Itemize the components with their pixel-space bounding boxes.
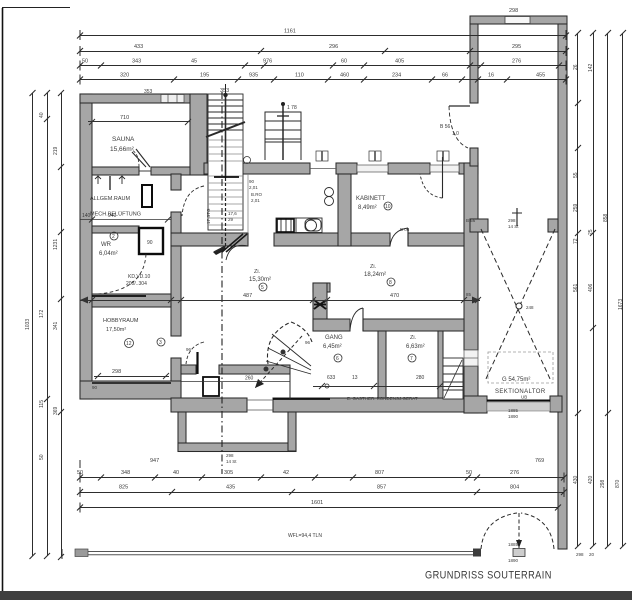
- bottom title bar: [0, 591, 632, 600]
- garage cross bracing X: [481, 208, 555, 383]
- wall interior long (y233): [171, 233, 464, 246]
- svg-text:7: 7: [410, 356, 413, 362]
- interior dim line mid y300: [80, 297, 481, 304]
- svg-text:405: 405: [395, 59, 404, 65]
- interior dim line hobby y376: [94, 373, 169, 379]
- svg-text:470: 470: [390, 293, 399, 299]
- wall central column x313: [313, 283, 330, 331]
- svg-text:B 56: B 56: [466, 218, 476, 223]
- svg-text:298: 298: [576, 552, 584, 557]
- window lintel label boxes above corridor wall: [316, 151, 449, 161]
- svg-text:353: 353: [220, 88, 229, 94]
- svg-text:295: 295: [512, 44, 521, 50]
- svg-text:1890: 1890: [508, 558, 519, 563]
- svg-text:55: 55: [573, 172, 579, 178]
- ALLG room black duct: [142, 185, 152, 207]
- svg-text:Zi.: Zi.: [410, 335, 417, 341]
- svg-text:343: 343: [132, 59, 141, 65]
- wall house bottom: [171, 398, 480, 412]
- svg-text:13: 13: [352, 375, 358, 381]
- dimension chain top line 4: [77, 75, 569, 85]
- svg-text:HOBBYRAUM: HOBBYRAUM: [103, 318, 139, 324]
- svg-text:298: 298: [508, 218, 516, 223]
- svg-text:16: 16: [488, 73, 494, 79]
- door gang: [350, 308, 363, 331]
- svg-text:1 78: 1 78: [287, 105, 297, 111]
- svg-text:85: 85: [466, 292, 472, 297]
- svg-text:870: 870: [615, 479, 621, 488]
- svg-text:280: 280: [416, 375, 425, 381]
- svg-text:8,49m²: 8,49m²: [358, 205, 377, 211]
- wall room663 right: [438, 331, 443, 398]
- svg-text:MECH.BELÜFTUNG: MECH.BELÜFTUNG: [90, 211, 141, 218]
- dimension chain bottom line 3 total 1601: [77, 503, 561, 513]
- driveway gate double arc: [481, 513, 554, 557]
- door sauna: [132, 149, 151, 171]
- svg-text:GANG: GANG: [325, 335, 343, 341]
- svg-text:369: 369: [53, 406, 59, 415]
- svg-text:14 St: 14 St: [226, 459, 237, 464]
- svg-text:1885: 1885: [508, 408, 519, 413]
- svg-text:5: 5: [261, 285, 264, 291]
- svg-text:14 St: 14 St: [508, 224, 519, 229]
- ALLG room vent arrows: [95, 176, 125, 190]
- svg-text:260: 260: [245, 376, 254, 382]
- svg-text:KD.VD.10: KD.VD.10: [128, 274, 150, 280]
- small stair beside garage: [443, 358, 463, 399]
- svg-text:KABINETT: KABINETT: [356, 196, 386, 202]
- svg-text:561: 561: [573, 283, 579, 292]
- garage top wall: [470, 16, 567, 24]
- svg-text:1231: 1231: [53, 239, 59, 250]
- svg-text:UB: UB: [521, 395, 527, 400]
- dimension chain bottom line 1: [77, 460, 567, 483]
- svg-text:110: 110: [295, 73, 304, 79]
- svg-text:2,01: 2,01: [251, 198, 260, 203]
- WC fixtures: [276, 188, 334, 233]
- svg-text:17 STG: 17 STG: [206, 208, 211, 224]
- svg-text:487: 487: [243, 293, 252, 299]
- svg-text:B.RO: B.RO: [251, 192, 263, 197]
- wall left outer: [80, 94, 92, 399]
- wall right of house: [464, 163, 478, 413]
- svg-text:17,6: 17,6: [228, 211, 237, 216]
- svg-text:17,50m²: 17,50m²: [106, 327, 126, 333]
- dimension chain top line 1 total 1161: [77, 30, 569, 40]
- svg-text:72: 72: [573, 238, 579, 244]
- wall WR top: [92, 226, 139, 233]
- wall corridor top (main eastwest wall): [204, 163, 478, 174]
- svg-text:Zi.: Zi.: [254, 269, 261, 275]
- svg-text:305: 305: [224, 470, 233, 476]
- svg-text:807: 807: [375, 470, 384, 476]
- svg-text:10: 10: [385, 204, 391, 210]
- svg-text:234: 234: [392, 73, 401, 79]
- section line vertical dash-dot: [221, 92, 223, 474]
- dimension chain left line 1: [30, 90, 65, 560]
- svg-text:172: 172: [39, 309, 45, 318]
- svg-text:1885: 1885: [508, 542, 519, 547]
- svg-text:430: 430: [573, 475, 579, 484]
- wall winder area: [181, 365, 290, 374]
- door arc hobby exit: [186, 342, 204, 364]
- circled numbers: [110, 157, 416, 363]
- svg-text:20: 20: [589, 552, 595, 557]
- svg-text:769: 769: [535, 458, 544, 464]
- svg-text:15,30m²: 15,30m²: [249, 277, 271, 283]
- door arc stair hall (below shaft): [214, 177, 248, 260]
- staircase main shaft: [206, 93, 245, 255]
- svg-text:298: 298: [600, 479, 606, 488]
- svg-text:710: 710: [120, 115, 129, 121]
- wall sauna bottom: [92, 167, 190, 175]
- svg-text:633: 633: [327, 375, 336, 381]
- shower black square: [139, 228, 163, 254]
- svg-text:276: 276: [512, 59, 521, 65]
- svg-text:50: 50: [82, 59, 88, 65]
- svg-text:6,04m²: 6,04m²: [99, 251, 118, 257]
- svg-text:406: 406: [588, 283, 594, 292]
- staircase exterior upper: [265, 102, 301, 160]
- svg-text:1,0: 1,0: [452, 131, 459, 137]
- scattered tiny dim labels: [92, 179, 476, 390]
- svg-text:8: 8: [389, 280, 392, 286]
- svg-text:6,45m²: 6,45m²: [323, 344, 342, 350]
- svg-text:1161: 1161: [284, 29, 296, 35]
- svg-text:1890: 1890: [508, 414, 519, 419]
- svg-text:298: 298: [509, 8, 518, 14]
- interior dim line gang y386: [313, 383, 464, 389]
- garage door arc at left wall: [449, 106, 470, 148]
- door arc kabinett: [420, 157, 443, 198]
- svg-text:50: 50: [39, 454, 45, 460]
- svg-text:ALLGEM.RAUM: ALLGEM.RAUM: [90, 196, 130, 202]
- wall top (sauna block): [80, 94, 207, 103]
- interior dim line winder y381: [181, 381, 290, 383]
- svg-text:341: 341: [53, 321, 59, 330]
- svg-text:25: 25: [588, 229, 594, 235]
- svg-text:90: 90: [92, 385, 98, 390]
- svg-text:66: 66: [442, 73, 448, 79]
- wall gang right / room663 left: [378, 331, 386, 398]
- svg-text:2,01: 2,01: [249, 185, 258, 190]
- svg-text:G 54,75m²: G 54,75m²: [502, 377, 530, 383]
- svg-text:96: 96: [186, 347, 192, 352]
- svg-text:Zi.: Zi.: [370, 264, 377, 270]
- svg-text:42: 42: [283, 470, 289, 476]
- svg-text:200/..304: 200/..304: [126, 281, 147, 287]
- dimension chain top line 3: [77, 61, 566, 71]
- svg-text:433: 433: [134, 44, 143, 50]
- garage right wall: [558, 24, 567, 549]
- svg-text:1673: 1673: [618, 299, 624, 310]
- svg-text:420: 420: [588, 475, 594, 484]
- svg-text:GRUNDRISS SOUTERRAIN: GRUNDRISS SOUTERRAIN: [425, 570, 552, 582]
- svg-text:947: 947: [150, 458, 159, 464]
- wall gang top: [313, 319, 464, 331]
- svg-text:857: 857: [377, 485, 386, 491]
- svg-text:WR: WR: [101, 242, 112, 248]
- lightwell exterior stair walls: [178, 412, 296, 452]
- svg-text:1601: 1601: [311, 500, 323, 506]
- svg-text:60: 60: [341, 59, 347, 65]
- svg-text:296: 296: [329, 44, 338, 50]
- svg-text:142: 142: [588, 63, 594, 72]
- property fence line bottom: [62, 549, 481, 560]
- svg-text:6,63m²: 6,63m²: [406, 344, 425, 350]
- interior dim line sauna 710: [88, 119, 191, 125]
- svg-text:353: 353: [144, 89, 153, 95]
- big dashed arc WR area: [98, 254, 146, 294]
- svg-text:12: 12: [126, 341, 132, 347]
- dimension chain right lines: [575, 30, 626, 549]
- svg-text:B 06: B 06: [400, 227, 410, 232]
- svg-text:90: 90: [249, 179, 255, 184]
- central wall hatch mark: [314, 300, 326, 309]
- svg-text:195: 195: [200, 73, 209, 79]
- svg-text:18,24m²: 18,24m²: [364, 272, 386, 278]
- svg-text:976: 976: [263, 59, 272, 65]
- svg-text:219: 219: [53, 146, 59, 155]
- svg-text:298: 298: [112, 369, 121, 375]
- svg-text:348: 348: [121, 470, 130, 476]
- wall WC right (x338): [338, 174, 351, 246]
- wall vertical interior x171: [171, 174, 181, 399]
- garage left wall: [470, 24, 478, 166]
- svg-text:1033: 1033: [25, 319, 31, 330]
- svg-text:3: 3: [159, 340, 162, 346]
- wall sauna right: [190, 94, 207, 175]
- svg-text:WFL=94,4 TLN: WFL=94,4 TLN: [288, 533, 322, 539]
- door arc room1824 at wall233: [390, 228, 408, 246]
- garage stub walls mid: [470, 219, 558, 232]
- svg-text:6: 6: [336, 356, 339, 362]
- dimension chain top line 2: [77, 46, 569, 56]
- winder stair bottom middle: [255, 322, 312, 399]
- svg-text:298: 298: [226, 453, 234, 458]
- svg-text:935: 935: [249, 73, 258, 79]
- svg-text:2: 2: [112, 234, 115, 240]
- black fixture rect near exit: [198, 352, 220, 396]
- svg-text:40: 40: [39, 112, 45, 118]
- wall WR bottom / hobby top: [92, 294, 171, 307]
- svg-text:40: 40: [173, 470, 179, 476]
- svg-text:115: 115: [39, 400, 45, 408]
- svg-text:259: 259: [573, 203, 579, 212]
- garage bottom wall sektionaltor: [464, 396, 562, 413]
- svg-text:460: 460: [340, 73, 349, 79]
- svg-text:435: 435: [226, 485, 235, 491]
- svg-text:SAUNA: SAUNA: [112, 136, 135, 143]
- svg-text:15,66m²: 15,66m²: [110, 146, 135, 153]
- scan edge artifact left: [2, 8, 70, 600]
- svg-text:248: 248: [526, 305, 534, 310]
- door arc corridor to allgraum: [182, 186, 204, 216]
- wall hobby bottom outer: [80, 381, 181, 399]
- svg-text:26: 26: [573, 64, 579, 70]
- svg-text:50: 50: [466, 470, 472, 476]
- svg-text:B 56: B 56: [440, 124, 451, 130]
- svg-text:320: 320: [120, 73, 129, 79]
- svg-text:455: 455: [536, 73, 545, 79]
- svg-text:858: 858: [603, 213, 609, 222]
- dimension chain bottom line 2: [77, 487, 567, 497]
- interior dim line left block y219: [80, 217, 171, 223]
- svg-text:29: 29: [228, 217, 234, 222]
- svg-text:825: 825: [119, 485, 128, 491]
- svg-text:50: 50: [77, 470, 83, 476]
- svg-text:804: 804: [510, 485, 519, 491]
- svg-text:96: 96: [305, 340, 311, 345]
- svg-text:90: 90: [147, 240, 153, 246]
- svg-text:276: 276: [510, 470, 519, 476]
- svg-text:E. GASTHER. KONDENSJ.GERAT: E. GASTHER. KONDENSJ.GERAT: [347, 396, 418, 401]
- svg-text:45: 45: [191, 59, 197, 65]
